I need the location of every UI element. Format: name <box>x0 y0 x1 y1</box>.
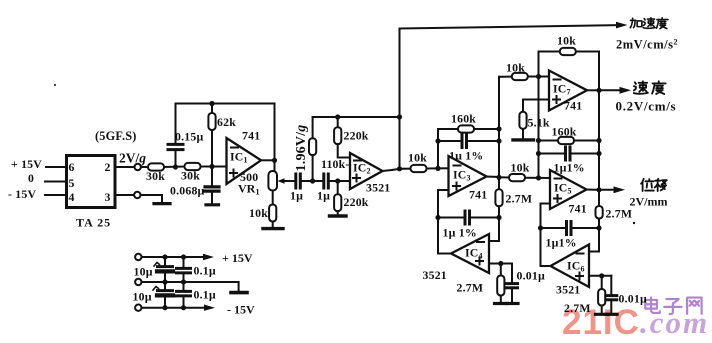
op-amp IC4 3521 <box>451 234 489 273</box>
wire IC7 plus network <box>523 100 549 113</box>
label displacement 移 <box>655 179 667 191</box>
svg-text:2.7M: 2.7M <box>606 207 633 221</box>
capacitor 0.068u <box>211 167 213 186</box>
svg-text:0.068µ: 0.068µ <box>170 184 205 198</box>
svg-text:1µ 1%: 1µ 1% <box>443 226 477 240</box>
svg-text:10k: 10k <box>408 151 427 165</box>
wire IC6 plus input <box>589 275 611 277</box>
ground 0.01u IC4 <box>507 302 519 305</box>
op-amp IC1 741 <box>227 138 262 184</box>
node 0.15u junction <box>173 164 178 169</box>
svg-text:10µ: 10µ <box>134 265 153 279</box>
wire pin3 to terminal <box>115 194 134 196</box>
svg-text:1.96V/g: 1.96V/g <box>294 125 309 172</box>
svg-text:741: 741 <box>564 99 582 113</box>
node IC1 output <box>272 158 277 163</box>
svg-text:TA 25: TA 25 <box>76 216 111 230</box>
wire bus1 <box>164 257 166 265</box>
svg-text:+ 15V: + 15V <box>11 157 42 171</box>
node cap row left <box>435 138 440 143</box>
svg-text:2V/g: 2V/g <box>119 151 146 166</box>
svg-text:0.1µ: 0.1µ <box>194 264 216 278</box>
wire IC2 output <box>383 170 393 171</box>
resistor 62k <box>211 104 213 114</box>
svg-text:3521: 3521 <box>366 181 390 195</box>
svg-text:741: 741 <box>569 202 587 216</box>
svg-text:(5GF.S): (5GF.S) <box>95 129 137 143</box>
wire IC5 plus stub <box>541 204 551 229</box>
node IC7 output <box>596 88 601 93</box>
wire IC2 feedback top <box>313 116 400 118</box>
capacitor 1u1% IC5 feedback <box>539 153 565 155</box>
wire acceleration output line <box>400 25 618 28</box>
svg-text:+ 15V: + 15V <box>222 251 253 265</box>
svg-text:62k: 62k <box>217 115 236 129</box>
svg-text:220k: 220k <box>344 195 369 209</box>
svg-text:741: 741 <box>242 129 260 143</box>
node 160k right IC5 <box>596 138 601 143</box>
node cap right IC5 <box>596 151 601 156</box>
label acceleration 度 <box>656 18 667 29</box>
resistor 2.7M IC4 <box>500 264 502 276</box>
op-amp IC6 3521 <box>551 245 590 288</box>
ground 220k <box>330 214 347 217</box>
wire IC6 minus input <box>589 228 599 252</box>
svg-text:21IC: 21IC <box>562 303 640 342</box>
svg-text:0.01µ: 0.01µ <box>517 269 545 283</box>
resistor 2.7M IC6 <box>601 276 603 289</box>
wire 0 to pin5 <box>45 181 67 183</box>
node 160k right <box>496 126 501 131</box>
watermark 21IC <box>562 303 640 342</box>
wire -15V to pin4 <box>45 194 67 196</box>
svg-text:0.1µ: 0.1µ <box>194 288 216 302</box>
wire IC1 output <box>261 159 275 161</box>
wire IC4 output <box>438 218 451 254</box>
wiper arrow VR1 <box>282 180 296 182</box>
svg-text:10µ: 10µ <box>133 290 152 304</box>
wire 0V power <box>142 282 239 291</box>
wire IC7 output <box>587 89 599 91</box>
capacitor 0.01u IC4 <box>511 264 513 283</box>
ground 0.01u IC6 <box>606 313 618 316</box>
node IC6 loop left <box>538 225 543 230</box>
node IC2 output bus <box>397 166 402 171</box>
capacitor 0.01u IC6 <box>610 276 612 294</box>
capacitor 0.15u <box>175 152 177 168</box>
node feedback top <box>209 101 214 106</box>
svg-text:1µ1%: 1µ1% <box>554 161 585 175</box>
resistor 30k first <box>148 163 164 170</box>
node 110k junction <box>310 178 315 183</box>
wire IC3 plus stub <box>438 190 449 218</box>
terminal power bottom <box>135 305 141 311</box>
node 62k junction <box>209 164 214 169</box>
svg-text:30k: 30k <box>181 169 200 183</box>
node loop right <box>496 215 501 220</box>
capacitor 0.1u second <box>177 290 191 293</box>
resistor 220k feedback <box>337 117 339 128</box>
svg-text:- 15V: - 15V <box>227 303 255 317</box>
capacitor 1u 1% IC3 feedback <box>438 140 461 142</box>
wire bus2 <box>183 257 185 267</box>
label velocity 度 <box>652 81 666 94</box>
wire pin2 to terminal <box>115 166 134 168</box>
wire pin3 terminal to ground <box>141 195 162 202</box>
terminal power top <box>135 254 141 260</box>
node IC4 plus <box>498 261 503 266</box>
node IC6 loop right <box>596 225 601 230</box>
node IC3 output <box>496 175 501 180</box>
wire IC5 output <box>587 189 600 191</box>
svg-text:2: 2 <box>105 160 111 174</box>
resistor 2.7M IC3 <box>495 189 502 206</box>
wire VR1 to 10k <box>272 191 274 205</box>
node 160k left IC5 <box>536 138 541 143</box>
svg-text:10k: 10k <box>249 206 268 220</box>
speck 2 <box>54 84 56 86</box>
node feedback 220k <box>335 114 340 119</box>
wire IC5 left vertical <box>538 77 540 179</box>
svg-text:2mV/cm/s2: 2mV/cm/s2 <box>616 38 678 52</box>
ground VR1 10k <box>263 227 283 230</box>
wire IC6 output <box>541 228 551 266</box>
svg-text:- 15V: - 15V <box>8 187 36 201</box>
svg-text:2.7M: 2.7M <box>457 281 484 295</box>
resistor 5.1k <box>519 112 526 129</box>
wire IC3 output <box>487 176 500 179</box>
svg-text:741: 741 <box>469 188 487 202</box>
resistor 220k to ground <box>337 181 339 195</box>
capacitor 1u second <box>322 174 325 188</box>
svg-text:2V/mm: 2V/mm <box>630 195 668 209</box>
capacitor 0.1u first <box>177 267 191 270</box>
node IC5 input <box>536 175 541 180</box>
wire feedback right vertical <box>274 104 276 172</box>
capacitor 10u first <box>158 265 173 268</box>
svg-text:0.15µ: 0.15µ <box>175 130 203 144</box>
resistor 110k vertical <box>312 117 314 139</box>
watermark 电子网 <box>645 297 701 314</box>
wire right bus vertical <box>598 90 600 206</box>
ground 0V power <box>231 291 247 295</box>
wire IC4 minus input <box>489 218 499 242</box>
resistor 160k IC3 feedback <box>438 128 459 130</box>
svg-text:10k: 10k <box>511 161 530 175</box>
ground 2.7M IC6 <box>596 313 609 316</box>
ground pin3 <box>154 202 170 205</box>
node cap left IC5 <box>536 151 541 156</box>
speck <box>633 222 635 224</box>
op-amp IC3 741 <box>449 156 487 196</box>
wire 30k to 30k <box>164 166 185 169</box>
wire node to cap2 <box>313 180 322 182</box>
wire +15V to pin6 <box>46 166 67 168</box>
resistor 10k IC7 feedback <box>539 52 559 77</box>
node IC7 minus <box>536 74 541 79</box>
capacitor 10u second <box>158 289 173 292</box>
ground 2.7M IC4 <box>495 302 508 305</box>
svg-text:0.2V/cm/s: 0.2V/cm/s <box>616 99 677 114</box>
resistor 160k IC5 feedback <box>539 140 559 142</box>
svg-text:220k: 220k <box>344 129 369 143</box>
svg-text:3521: 3521 <box>556 283 580 297</box>
op-amp IC5 741 <box>550 170 587 209</box>
svg-text:160k: 160k <box>451 112 476 126</box>
label acceleration 加 <box>630 18 642 28</box>
wire IC1 feedback top <box>176 103 275 105</box>
svg-text:160k: 160k <box>552 125 577 139</box>
capacitor 1u1% IC6 loop <box>541 227 566 229</box>
svg-text:1µ: 1µ <box>317 189 330 203</box>
wire +15V power <box>142 256 205 258</box>
svg-text:3: 3 <box>105 190 111 204</box>
svg-text:5: 5 <box>69 176 75 190</box>
resistor 30k second <box>185 163 201 170</box>
preamp module TA 25 <box>67 156 116 208</box>
terminal power mid <box>135 279 141 285</box>
resistor 10k IC7 input <box>499 76 512 78</box>
capacitor 1u first <box>294 174 297 188</box>
ground 0.068u <box>206 203 219 206</box>
svg-text:1µ: 1µ <box>290 189 303 203</box>
wire IC3 feedback left vertical <box>437 129 439 168</box>
watermark .com <box>640 305 709 340</box>
op-amp IC7 741 <box>549 71 587 111</box>
capacitor 1u 1% IC4 loop <box>438 217 464 219</box>
svg-text:0: 0 <box>28 171 34 185</box>
resistor 10k interstage <box>400 168 412 170</box>
op-amp IC2 3521 <box>350 153 383 189</box>
svg-text:10k: 10k <box>557 34 576 48</box>
potentiometer VR1 500 <box>268 171 277 191</box>
svg-text:4: 4 <box>69 190 75 204</box>
node 220k bottom junction <box>335 178 340 183</box>
displacement output arrow <box>599 189 615 191</box>
wire IC4 plus input <box>489 263 512 265</box>
resistor 2.7M right bus <box>596 206 603 219</box>
wire 30k to IC1 <box>201 166 227 168</box>
svg-text:3521: 3521 <box>423 268 447 282</box>
node feedback bus <box>397 114 402 119</box>
terminal pin2 <box>135 164 141 170</box>
velocity output arrow <box>599 89 621 91</box>
svg-text:30k: 30k <box>146 169 165 183</box>
resistor 10k bottom <box>269 205 276 222</box>
wire -15V power <box>142 307 206 309</box>
svg-text:6: 6 <box>69 160 75 174</box>
svg-text:1µ1%: 1µ1% <box>546 236 577 250</box>
label velocity 速 <box>634 81 648 93</box>
svg-text:10k: 10k <box>506 61 525 75</box>
label acceleration 速 <box>643 18 655 29</box>
wire IC3 right vertical <box>498 77 500 190</box>
resistor 10k IC3 to IC5 <box>499 176 509 178</box>
node loop left <box>435 215 440 220</box>
svg-text:110k-: 110k- <box>321 157 350 171</box>
node IC3 input <box>435 166 440 171</box>
node IC6 plus <box>599 273 604 278</box>
wire terminal to R30k <box>141 166 149 168</box>
terminal pin3 <box>134 192 140 198</box>
node cap right <box>496 138 501 143</box>
label displacement 位 <box>641 179 654 191</box>
wire acceleration bus vertical <box>399 29 401 169</box>
ground 5.1k <box>513 138 534 141</box>
svg-text:2.7M: 2.7M <box>506 192 533 206</box>
node IC5 output <box>596 187 601 192</box>
wire 10k to ground <box>272 222 274 228</box>
